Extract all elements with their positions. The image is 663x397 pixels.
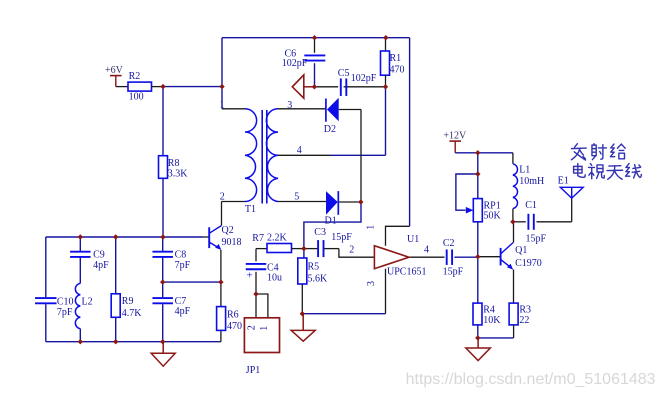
svg-text:7pF: 7pF xyxy=(57,307,73,318)
svg-text:5: 5 xyxy=(294,192,299,203)
svg-text:R7: R7 xyxy=(252,233,264,244)
svg-text:C3: C3 xyxy=(314,227,326,238)
svg-text:470: 470 xyxy=(390,65,405,76)
svg-text:1: 1 xyxy=(220,100,225,111)
svg-text:2: 2 xyxy=(220,192,225,203)
svg-text:2.2K: 2.2K xyxy=(267,233,288,244)
svg-text:C2: C2 xyxy=(443,238,455,249)
svg-text:D1: D1 xyxy=(325,215,337,226)
svg-text:R8: R8 xyxy=(168,158,180,169)
svg-text:R9: R9 xyxy=(122,296,134,307)
svg-text:R2: R2 xyxy=(129,71,141,82)
svg-text:4pF: 4pF xyxy=(175,306,191,317)
svg-text:15pF: 15pF xyxy=(443,266,464,277)
svg-text:102pF: 102pF xyxy=(282,58,308,69)
svg-text:https://blog.csdn.net/m0_51061: https://blog.csdn.net/m0_51061483 xyxy=(406,371,656,388)
svg-text:4.7K: 4.7K xyxy=(122,308,143,319)
svg-text:4pF: 4pF xyxy=(93,260,109,271)
svg-text:3.3K: 3.3K xyxy=(168,169,189,180)
svg-text:50K: 50K xyxy=(484,211,502,222)
svg-text:+6V: +6V xyxy=(105,65,124,76)
svg-text:4: 4 xyxy=(424,245,429,256)
svg-text:9018: 9018 xyxy=(222,237,242,248)
svg-text:2: 2 xyxy=(247,325,258,330)
svg-text:+12V: +12V xyxy=(443,131,467,142)
svg-text:RP1: RP1 xyxy=(484,200,501,211)
svg-text:3: 3 xyxy=(287,100,292,111)
svg-text:1: 1 xyxy=(259,326,270,331)
svg-text:D2: D2 xyxy=(324,124,336,135)
svg-text:3: 3 xyxy=(366,281,377,286)
svg-text:L2: L2 xyxy=(82,297,93,308)
svg-text:5.6K: 5.6K xyxy=(308,274,329,285)
svg-text:+: + xyxy=(247,270,253,282)
svg-text:U1: U1 xyxy=(407,234,419,245)
svg-text:T1: T1 xyxy=(245,204,256,215)
svg-text:JP1: JP1 xyxy=(246,365,260,376)
svg-text:C1: C1 xyxy=(525,200,537,211)
svg-text:C5: C5 xyxy=(338,68,350,79)
svg-text:10u: 10u xyxy=(267,272,282,283)
svg-text:470: 470 xyxy=(227,321,242,332)
svg-text:Q2: Q2 xyxy=(222,225,234,236)
svg-text:2: 2 xyxy=(349,244,354,255)
svg-text:L1: L1 xyxy=(519,165,530,176)
svg-text:7pF: 7pF xyxy=(175,260,191,271)
svg-text:R1: R1 xyxy=(390,53,402,64)
svg-text:R5: R5 xyxy=(308,262,320,273)
svg-text:15pF: 15pF xyxy=(526,233,547,244)
svg-text:10K: 10K xyxy=(483,315,501,326)
svg-text:Q1: Q1 xyxy=(515,245,527,256)
svg-text:R6: R6 xyxy=(227,309,239,320)
svg-text:UPC1651: UPC1651 xyxy=(387,267,426,278)
svg-text:C1970: C1970 xyxy=(515,258,542,269)
svg-text:E1: E1 xyxy=(558,175,569,186)
svg-text:100: 100 xyxy=(129,92,144,103)
svg-text:10mH: 10mH xyxy=(519,176,544,187)
svg-text:102pF: 102pF xyxy=(351,73,377,84)
svg-text:4: 4 xyxy=(297,145,302,156)
svg-text:22: 22 xyxy=(519,315,529,326)
svg-text:15pF: 15pF xyxy=(331,232,352,243)
svg-text:1: 1 xyxy=(366,225,377,230)
